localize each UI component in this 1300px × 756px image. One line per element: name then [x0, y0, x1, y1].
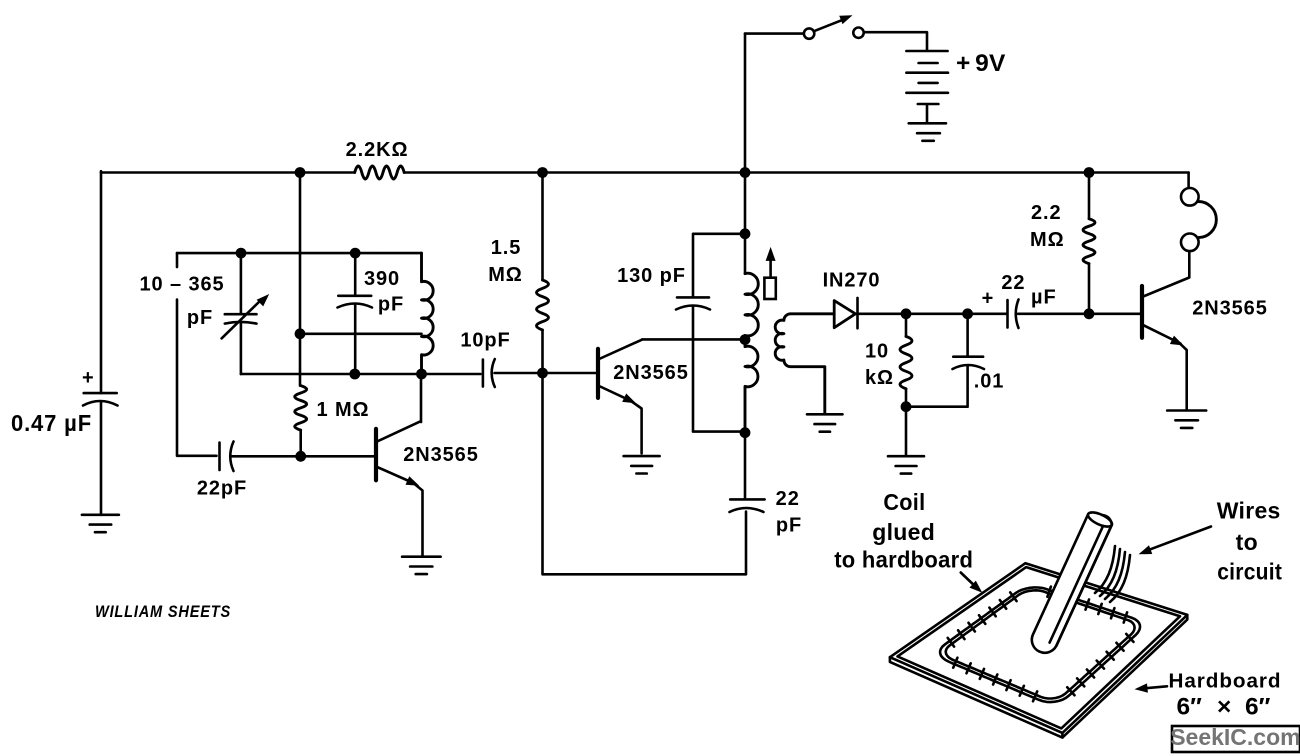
svg-text:2N3565: 2N3565 — [613, 362, 688, 384]
label arrows — [961, 573, 978, 589]
wire top rail left — [101, 171, 355, 174]
handle stick — [1032, 514, 1112, 653]
svg-text:MΩ: MΩ — [488, 264, 523, 286]
ground battery — [917, 133, 940, 141]
svg-text:6″: 6″ — [1177, 694, 1203, 721]
illustration labels — [834, 489, 1282, 721]
ground 0.47uF — [82, 515, 119, 532]
svg-text:to: to — [1236, 529, 1258, 555]
variable capacitor 10-365pF — [225, 253, 257, 374]
coil loop on board — [940, 587, 1140, 702]
svg-text:µF: µF — [1031, 287, 1057, 309]
transistor Q3 2N3565 — [1140, 286, 1144, 338]
capacitor 10pF — [483, 359, 596, 387]
watermark background — [1172, 726, 1300, 752]
svg-text:2N3565: 2N3565 — [1192, 298, 1267, 320]
hardboard illustration — [890, 563, 1187, 737]
svg-text:pF: pF — [776, 515, 802, 537]
resistor 1.5M — [541, 173, 544, 281]
svg-text:130 pF: 130 pF — [617, 265, 686, 287]
svg-text:+: + — [982, 288, 995, 310]
svg-text:+9V: +9V — [956, 50, 1006, 77]
svg-text:pF: pF — [378, 294, 404, 316]
svg-text:0.47 µF: 0.47 µF — [11, 410, 92, 436]
inductor L1 tank coil — [422, 253, 434, 374]
capacitor .01 — [906, 314, 984, 407]
transformer primary — [744, 173, 747, 274]
wire tank bottom — [241, 373, 481, 376]
diode IN270 — [834, 301, 855, 328]
switch SPST — [745, 32, 804, 35]
resistor 10k — [905, 314, 908, 337]
wire coil tap — [300, 332, 422, 335]
wire feedback path — [543, 373, 747, 574]
headphones — [1187, 173, 1190, 189]
svg-text:×: × — [1217, 694, 1232, 721]
capacitor 130pF — [676, 234, 745, 432]
capacitor 22uF — [1008, 300, 1141, 329]
svg-text:Hardboard: Hardboard — [1169, 671, 1282, 693]
svg-text:22pF: 22pF — [197, 478, 247, 500]
svg-text:6″: 6″ — [1245, 694, 1271, 721]
resistor 1M — [295, 386, 307, 431]
svg-text:+: + — [82, 367, 95, 389]
wire tank top — [177, 252, 422, 255]
wire left branch down — [100, 171, 103, 393]
svg-text:2N3565: 2N3565 — [403, 444, 478, 466]
wire switch to rail — [744, 34, 747, 173]
svg-text:kΩ: kΩ — [865, 367, 894, 389]
transformer secondary — [775, 314, 833, 414]
capacitor 0.47uF — [83, 393, 118, 405]
svg-text:10 – 365: 10 – 365 — [139, 274, 224, 296]
capacitor 22pF feedback — [730, 433, 765, 512]
svg-text:2.2KΩ: 2.2KΩ — [346, 139, 409, 161]
ground Q2 — [624, 456, 660, 473]
ground Q3 — [1167, 411, 1206, 428]
wire center branch — [299, 173, 302, 386]
svg-text:10: 10 — [865, 341, 889, 363]
board outline — [890, 563, 1187, 733]
svg-text:MΩ: MΩ — [1030, 229, 1065, 251]
capacitor 22pF — [220, 442, 375, 472]
ground 10k — [888, 456, 924, 473]
svg-text:circuit: circuit — [1217, 559, 1282, 585]
svg-text:SeekIC.com: SeekIC.com — [1170, 724, 1300, 750]
transistor Q2 2N3565 — [596, 349, 600, 398]
svg-text:pF: pF — [187, 307, 213, 329]
svg-text:Wires: Wires — [1217, 498, 1281, 524]
wires to circuit (curves) — [1095, 546, 1130, 602]
svg-text:22: 22 — [1001, 272, 1025, 294]
svg-text:2.2: 2.2 — [1031, 202, 1062, 224]
svg-text:1 MΩ: 1 MΩ — [317, 399, 370, 421]
wire bracket 10-365 — [177, 253, 217, 456]
svg-text:to hardboard: to hardboard — [834, 547, 973, 573]
svg-text:22: 22 — [776, 488, 800, 510]
ground Q1 — [402, 557, 441, 574]
resistor 2.2M — [1088, 173, 1091, 219]
wire top rail right — [404, 171, 1188, 174]
svg-text:glued: glued — [872, 519, 935, 545]
junction dots — [295, 167, 306, 178]
svg-text:.01: .01 — [974, 371, 1005, 393]
resistor 2.2KΩ — [355, 166, 404, 179]
slug arrow — [769, 260, 772, 278]
svg-text:1.5: 1.5 — [491, 237, 522, 259]
transistor Q1 2N3565 — [374, 429, 378, 480]
svg-text:IN270: IN270 — [823, 270, 881, 292]
battery +9V — [906, 51, 948, 123]
svg-text:10pF: 10pF — [460, 330, 510, 352]
svg-text:390: 390 — [364, 268, 400, 290]
svg-text:WILLIAM SHEETS: WILLIAM SHEETS — [95, 603, 231, 621]
capacitor 390pF — [338, 253, 373, 374]
ground secondary — [807, 414, 843, 431]
svg-text:Coil: Coil — [883, 489, 925, 515]
